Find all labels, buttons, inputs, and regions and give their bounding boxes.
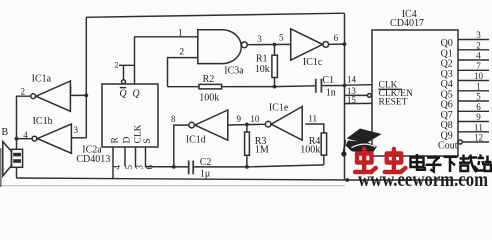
svg-text:3: 3 <box>476 30 481 40</box>
pin 1 Q5 <box>458 81 489 91</box>
resistor R1 <box>255 45 278 87</box>
wire IC1a input <box>70 94 86 96</box>
inverter IC1e <box>265 102 302 140</box>
capacitor C1 <box>316 75 336 99</box>
wire C1 to CLK node <box>322 85 344 87</box>
svg-text:2: 2 <box>179 48 184 58</box>
svg-text:Q: Q <box>119 89 127 100</box>
pin 4 Q2 <box>458 51 489 61</box>
svg-text:R1: R1 <box>256 54 268 65</box>
svg-text:5: 5 <box>124 165 134 170</box>
node R3 top junction <box>245 123 249 127</box>
wire IC1a output <box>17 96 31 149</box>
svg-text:10: 10 <box>250 114 260 124</box>
svg-text:4: 4 <box>23 130 28 140</box>
svg-text:4: 4 <box>112 165 122 170</box>
wire pin 14 <box>345 84 373 87</box>
resistor R3 <box>245 124 269 166</box>
wire pin 13 <box>345 94 368 96</box>
svg-text:1n: 1n <box>326 88 336 99</box>
svg-text:Q: Q <box>132 89 140 100</box>
svg-text:R2: R2 <box>203 74 215 85</box>
svg-text:2: 2 <box>476 40 481 50</box>
svg-text:100k: 100k <box>199 92 219 103</box>
svg-text:1: 1 <box>178 29 183 39</box>
wire to C1 <box>275 85 316 88</box>
svg-text:6: 6 <box>476 102 481 112</box>
svg-text:IC1e: IC1e <box>269 102 289 113</box>
pin 3 Q0 <box>458 30 489 40</box>
svg-text:S: S <box>143 138 153 143</box>
wire speaker to rail <box>16 167 18 178</box>
svg-text:CLK: CLK <box>133 124 143 143</box>
inverter IC1c <box>291 29 329 68</box>
svg-text:5: 5 <box>279 32 284 42</box>
pin 6 IC2a <box>144 147 188 170</box>
node IC1a input junction <box>84 94 88 98</box>
svg-text:6: 6 <box>334 33 339 43</box>
wire IC1b input <box>71 137 86 139</box>
capacitor C2 <box>189 157 212 179</box>
pin 3 IC2a <box>134 147 144 170</box>
node R3 bottom junction <box>245 165 249 169</box>
svg-text:B: B <box>1 127 8 138</box>
inverter IC1a <box>31 74 71 112</box>
svg-text:14: 14 <box>347 74 357 84</box>
svg-text:6: 6 <box>144 165 154 170</box>
svg-text:R: R <box>111 137 121 144</box>
wire bottom rail <box>17 178 469 180</box>
speaker B <box>1 127 22 176</box>
pin 5 Q6 <box>458 92 489 102</box>
svg-text:9: 9 <box>476 112 481 122</box>
svg-text:12: 12 <box>474 133 483 143</box>
svg-text:15: 15 <box>347 95 357 105</box>
node CLK junction <box>343 84 347 88</box>
svg-text:5: 5 <box>476 92 481 102</box>
svg-text:1: 1 <box>476 81 481 91</box>
watermark logo <box>0 129 492 192</box>
pin 9 Q8 <box>458 112 489 122</box>
flip-flop IC2a CD4013 <box>76 84 158 165</box>
node R2 R1 junction <box>273 85 277 89</box>
svg-text:2: 2 <box>115 61 119 70</box>
svg-text:8: 8 <box>171 114 176 124</box>
svg-text:9: 9 <box>237 114 242 124</box>
svg-text:3: 3 <box>257 34 262 44</box>
wire IC1e output <box>305 124 324 133</box>
wire right vertical net <box>344 13 346 180</box>
node speaker drive junction <box>15 137 19 141</box>
svg-text:D: D <box>122 137 132 144</box>
inverter IC1b <box>32 116 71 153</box>
svg-text:CD4017: CD4017 <box>390 18 424 29</box>
wire pin 15 <box>345 102 373 104</box>
node rail junction <box>345 178 349 182</box>
svg-text:1M: 1M <box>255 144 269 155</box>
svg-text:10: 10 <box>474 71 484 81</box>
svg-text:10k: 10k <box>255 64 270 75</box>
node C2 junction <box>172 165 176 169</box>
wire NAND input 1 from IC2a Q <box>135 37 198 84</box>
pin 5 IC2a <box>124 147 134 170</box>
wire IC1d input <box>228 123 265 126</box>
svg-text:Cout: Cout <box>438 140 458 151</box>
wire IC1c output <box>329 43 345 45</box>
pin 2 Qbar stub IC2a <box>115 61 135 84</box>
svg-text:3: 3 <box>73 125 78 135</box>
nand gate IC3a <box>198 30 248 77</box>
svg-text:C1: C1 <box>322 75 334 86</box>
svg-text:1μ: 1μ <box>200 168 210 179</box>
node IC1c output junction <box>343 42 347 46</box>
counter IC4 CD4017 <box>372 9 458 156</box>
svg-text:IC3a: IC3a <box>224 66 244 77</box>
svg-text:RESET: RESET <box>379 97 408 107</box>
svg-text:3: 3 <box>134 165 144 170</box>
svg-text:2: 2 <box>20 87 25 97</box>
wire IC1b output <box>17 138 33 140</box>
svg-text:IC1b: IC1b <box>33 116 53 127</box>
wire IC1d output down <box>174 125 189 167</box>
resistor R4 <box>300 133 326 165</box>
wire IC3a output to IC1c <box>247 43 290 45</box>
svg-text:IC1a: IC1a <box>32 74 52 85</box>
svg-text:7: 7 <box>476 61 481 71</box>
pin 12 Cout <box>458 133 489 145</box>
pin 11 Q9 <box>458 122 489 132</box>
svg-text:IC1c: IC1c <box>303 57 323 68</box>
pin 6 Q7 <box>458 102 489 112</box>
svg-text:www.eeworm.com: www.eeworm.com <box>358 169 488 187</box>
svg-text:CD4013: CD4013 <box>76 154 110 165</box>
svg-text:11: 11 <box>308 113 317 123</box>
node R1 top junction <box>273 43 277 47</box>
wire left vertical node net <box>85 17 87 138</box>
svg-text:11: 11 <box>474 122 483 132</box>
pin 10 Q4 <box>458 71 489 81</box>
resistor R2 <box>168 74 275 103</box>
wire top feedback <box>86 13 345 17</box>
inverter IC1d <box>186 110 228 145</box>
svg-text:4: 4 <box>476 51 481 61</box>
pin 7 Q3 <box>458 61 489 71</box>
svg-text:100k: 100k <box>300 144 320 155</box>
wire C2 to R3 R4 <box>194 165 324 167</box>
pin 2 Q1 <box>458 40 489 50</box>
svg-text:IC1d: IC1d <box>186 134 206 145</box>
pin 4 IC2a <box>112 147 122 178</box>
wire NAND input 2 <box>168 58 198 87</box>
